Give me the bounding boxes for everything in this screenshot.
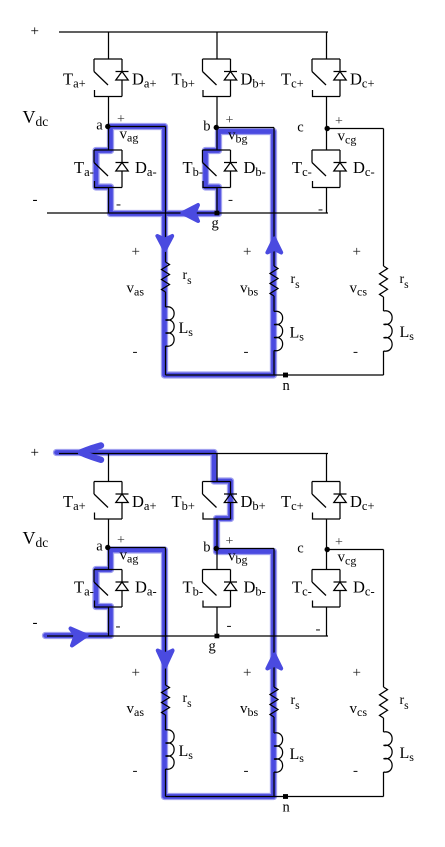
svg-text:a: a <box>96 539 103 555</box>
svg-text:-: - <box>227 618 232 634</box>
transistor Ta- (fig2) <box>94 570 122 608</box>
resistor r_s phase c (fig2) <box>380 687 388 718</box>
svg-text:-: - <box>133 344 138 360</box>
wire node c to load branch (fig1) <box>327 128 384 130</box>
svg-text:+: + <box>132 665 140 681</box>
transistor Ta+ (fig2) <box>94 482 122 520</box>
node c junction dot (fig2) <box>325 547 330 552</box>
svg-text:n: n <box>283 800 291 816</box>
wire phase c load branch (fig1) <box>383 129 385 267</box>
wire phase a load branch (fig2) <box>165 548 167 686</box>
svg-text:-: - <box>353 763 358 779</box>
transistor Tb+ (fig2) <box>203 482 231 520</box>
transistor Tb+ (fig1) <box>203 59 231 97</box>
svg-text:+: + <box>132 244 140 260</box>
diode Dc+ (fig1) <box>334 59 347 97</box>
inductor L_s phase c (fig1) <box>384 311 393 351</box>
wire phase b load branch (fig1) <box>273 128 275 267</box>
transistor Tc+ (fig2) <box>312 482 340 520</box>
diode Dc- (fig1) <box>334 150 347 188</box>
wire bottom DC rail (fig2) <box>47 635 328 637</box>
node b junction dot (fig2) <box>214 546 219 551</box>
svg-text:-: - <box>116 619 121 635</box>
wire node a to load branch (fig2) <box>109 547 166 549</box>
svg-text:-: - <box>353 344 358 360</box>
svg-text:+: + <box>31 24 39 40</box>
svg-text:b: b <box>203 119 210 135</box>
svg-text:-: - <box>244 344 249 360</box>
wire leg a upper (fig2) <box>108 454 110 482</box>
wire top DC rail (fig1) <box>59 31 328 33</box>
wire load bottom (star) (fig2) <box>166 796 384 798</box>
svg-text:+: + <box>226 113 234 128</box>
resistor r_s phase a (fig1) <box>162 262 170 292</box>
node g junction dot (fig2) <box>215 634 220 639</box>
node n junction dot (fig1) <box>283 373 288 378</box>
diode Da+ (fig1) <box>116 59 129 97</box>
wire node a to load branch (fig1) <box>109 126 166 128</box>
wire phase b load branch (fig2) <box>273 549 275 688</box>
arrow current left on bottom rail (fig1) <box>183 205 199 221</box>
svg-text:c: c <box>297 120 303 136</box>
wire node b to load branch (fig1) <box>217 127 274 129</box>
wire leg c middle (fig2) <box>326 519 328 570</box>
svg-text:-: - <box>228 192 233 208</box>
wire leg a lower (fig2) <box>108 607 110 636</box>
svg-text:+: + <box>353 665 361 681</box>
wire phase c load branch (fig2) <box>383 550 385 688</box>
svg-text:+: + <box>353 244 361 260</box>
diode Dc- (fig2) <box>334 570 347 608</box>
svg-text:+: + <box>117 533 125 548</box>
wire leg b lower (fig2) <box>216 607 218 636</box>
wire leg a middle (fig2) <box>108 519 110 570</box>
wire leg b middle (fig1) <box>216 97 218 151</box>
svg-text:-: - <box>318 202 323 218</box>
svg-text:+: + <box>243 244 251 260</box>
svg-text:b: b <box>203 540 210 556</box>
diode Db- (fig1) <box>224 150 237 188</box>
wire leg b upper (fig2) <box>216 454 218 482</box>
transistor Tb- (fig2) <box>203 570 231 608</box>
svg-text:+: + <box>31 445 39 461</box>
diode Dc+ (fig2) <box>334 482 347 520</box>
transistor Tc- (fig2) <box>312 570 340 608</box>
wire bottom DC rail (fig1) <box>47 212 328 214</box>
inductor L_s phase b (fig1) <box>274 311 283 350</box>
wire leg a upper (fig1) <box>108 32 110 59</box>
wire load bottom (star) (fig1) <box>166 374 384 376</box>
svg-text:c: c <box>297 541 303 557</box>
wire leg c upper (fig2) <box>326 454 328 482</box>
arrow current up on phase b load (fig1) <box>267 239 281 253</box>
inductor L_s phase b (fig2) <box>274 733 283 772</box>
svg-text:a: a <box>96 118 103 134</box>
wire node b to load branch (fig2) <box>217 548 274 550</box>
svg-text:-: - <box>133 763 138 779</box>
wire leg c lower (fig2) <box>326 607 328 636</box>
diode Db- (fig2) <box>224 570 237 608</box>
arrow current down on phase a load (fig2) <box>158 651 173 667</box>
wire leg c upper (fig1) <box>326 32 328 59</box>
svg-text:+: + <box>226 534 234 549</box>
wire phase a load branch (fig1) <box>165 127 167 263</box>
inductor L_s phase a (fig1) <box>166 307 175 346</box>
node g junction dot (fig1) <box>215 211 220 216</box>
svg-text:n: n <box>283 378 291 394</box>
wire leg a lower (fig1) <box>108 188 110 214</box>
diode Da+ (fig2) <box>116 482 129 520</box>
wire leg b middle (fig2) <box>216 519 218 570</box>
svg-text:-: - <box>316 621 321 637</box>
transistor Ta- (fig1) <box>94 150 122 188</box>
svg-text:+: + <box>117 112 125 127</box>
svg-text:+: + <box>335 535 343 550</box>
diode Db+ (fig1) <box>224 59 237 97</box>
diode Db+ (fig2) <box>224 482 237 520</box>
svg-text:+: + <box>243 665 251 681</box>
wire leg b upper (fig1) <box>216 32 218 59</box>
arrow current left on top rail (fig2) <box>81 446 101 460</box>
node a junction dot (fig2) <box>105 545 110 550</box>
inductor L_s phase c (fig2) <box>384 732 393 772</box>
svg-text:g: g <box>212 216 219 232</box>
resistor r_s phase b (fig1) <box>270 266 278 296</box>
arrow current up on phase b load (fig2) <box>267 655 281 669</box>
resistor r_s phase c (fig1) <box>380 266 388 297</box>
wire leg b lower (fig1) <box>216 188 218 214</box>
diode Da- (fig2) <box>116 570 129 608</box>
transistor Tc+ (fig1) <box>312 59 340 97</box>
svg-text:-: - <box>33 615 38 631</box>
wire leg c middle (fig1) <box>326 97 328 151</box>
arrow current down on phase a load (fig1) <box>157 236 172 250</box>
node b junction dot (fig1) <box>214 125 219 130</box>
transistor Tb- (fig1) <box>203 150 231 188</box>
resistor r_s phase a (fig2) <box>162 685 170 715</box>
node a junction dot (fig1) <box>105 124 110 129</box>
svg-text:-: - <box>244 763 249 779</box>
wire leg a middle (fig1) <box>108 97 110 151</box>
inductor L_s phase a (fig2) <box>166 730 175 769</box>
svg-text:g: g <box>209 639 216 655</box>
resistor r_s phase b (fig2) <box>270 687 278 717</box>
svg-text:-: - <box>33 192 38 208</box>
wire node c to load branch (fig2) <box>327 549 384 551</box>
transistor Tc- (fig1) <box>312 150 340 188</box>
node c junction dot (fig1) <box>325 126 330 131</box>
wire blue current path fig2: from + rail through Tb+, node b, b-load, n, a-load, node a, Ta-, bottom rail to - <box>46 453 274 797</box>
wire top DC rail (fig2) <box>59 453 328 455</box>
node n junction dot (fig2) <box>283 794 288 799</box>
diode Da- (fig1) <box>116 150 129 188</box>
transistor Ta+ (fig1) <box>94 59 122 97</box>
wire leg c lower (fig1) <box>326 188 328 214</box>
arrow current right on bottom rail (fig2) <box>71 629 87 646</box>
svg-text:+: + <box>335 114 343 129</box>
wire blue current path fig1: a-load down, n, b-load up, Tb- , bottom rail, Ta- <box>96 127 274 376</box>
svg-text:-: - <box>116 196 121 212</box>
